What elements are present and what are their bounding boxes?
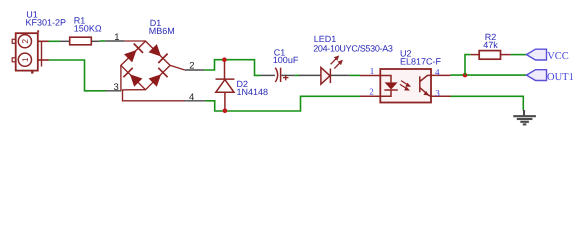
pin number 1 (U1 circled, rotated) — [20, 57, 30, 62]
svg-text:LED1: LED1 — [314, 34, 337, 44]
pin 1 graphic — [124, 40, 145, 42]
svg-text:3: 3 — [435, 88, 440, 98]
svg-text:2: 2 — [369, 87, 374, 97]
bridge pin 4 line — [185, 100, 206, 102]
bridge rectifier D1 — [121, 41, 185, 101]
svg-text:1N4148: 1N4148 — [237, 87, 269, 97]
svg-text:OUT1: OUT1 — [547, 72, 574, 83]
svg-text:2: 2 — [189, 61, 194, 72]
LED LED1 — [299, 55, 350, 84]
pin 3 graphic — [120, 65, 122, 90]
bridge diode bottom-left — [123, 68, 142, 87]
svg-text:MB6M: MB6M — [149, 26, 175, 36]
wire U2 pin4 to OUT1 — [451, 74, 527, 76]
inner LED — [380, 76, 391, 83]
net flag OUT1 — [527, 70, 574, 83]
bridge pin 1 line — [105, 40, 124, 42]
diode D2 — [216, 60, 235, 111]
svg-text:4: 4 — [435, 67, 440, 77]
wire bridge pin2 to C1 — [204, 60, 260, 76]
svg-text:1: 1 — [114, 32, 119, 43]
coupling arrows — [400, 81, 411, 91]
svg-text:204-10UYC/S530-A3: 204-10UYC/S530-A3 — [313, 44, 393, 54]
connector U1 — [12, 30, 48, 73]
bridge pin 3 line — [105, 90, 121, 92]
resistor R1 — [60, 37, 100, 45]
svg-text:100uF: 100uF — [273, 55, 299, 65]
wire R2 to VCC — [511, 54, 527, 56]
bridge diode bottom-right — [149, 68, 168, 87]
svg-text:1: 1 — [370, 66, 375, 76]
wire C1 to LED1 — [295, 74, 300, 76]
svg-text:47k: 47k — [483, 40, 498, 50]
svg-text:3: 3 — [114, 82, 119, 93]
pin 4 graphic — [123, 90, 185, 101]
wire LED1 to U2 pin1 — [350, 74, 360, 76]
phototransistor — [419, 76, 421, 92]
junction dot D2 top — [222, 57, 227, 62]
svg-text:VCC: VCC — [547, 51, 569, 62]
wire bridge pin4 to U2 pin2 — [206, 96, 360, 111]
svg-text:4: 4 — [189, 92, 194, 103]
bridge diode top-left — [124, 44, 143, 63]
wire U1.2 to R1 — [49, 40, 61, 42]
wire junction up to R2 — [465, 55, 471, 76]
capacitor C1 — [261, 68, 295, 82]
wire R1 to bridge pin1 — [100, 40, 106, 42]
net flag VCC — [527, 49, 569, 62]
bridge diode top-right — [149, 44, 168, 63]
diamond outline — [121, 41, 170, 90]
svg-text:EL817C-F: EL817C-F — [400, 57, 442, 67]
bridge pin 2 line — [185, 69, 205, 71]
optocoupler U2 — [380, 69, 431, 103]
ground — [513, 110, 536, 124]
resistor R2 — [471, 51, 511, 60]
svg-text:150KΩ: 150KΩ — [74, 24, 102, 34]
junction dot R2/OUT1 — [463, 73, 468, 78]
pin stubs — [360, 75, 380, 77]
svg-text:2: 2 — [20, 39, 30, 44]
svg-text:1: 1 — [20, 57, 30, 62]
emission arrows — [331, 55, 343, 68]
pin number 2 (U1 circled, rotated) — [20, 39, 30, 44]
svg-text:KF301-2P: KF301-2P — [26, 17, 67, 27]
junction dot D2 bottom — [223, 109, 228, 114]
wire U2 pin3 to ground — [451, 96, 524, 110]
wire U1.1 to bridge pin3 — [49, 60, 106, 91]
pin 2 graphic — [170, 65, 185, 70]
